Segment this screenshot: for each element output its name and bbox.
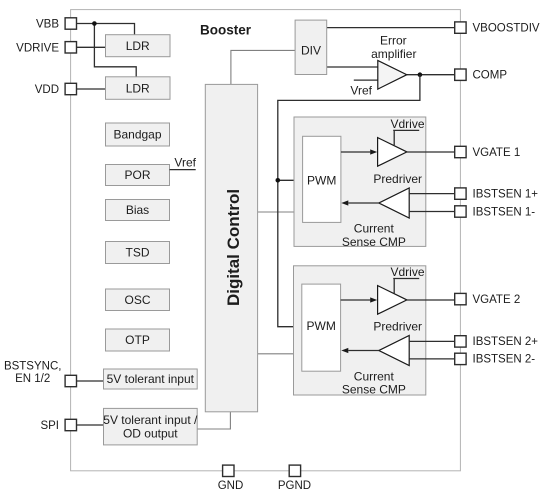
wire predriver1 to VGATE 1 bbox=[407, 151, 455, 153]
op-amp error amplifier bbox=[371, 33, 416, 89]
comparator current sense CMP 2 bbox=[379, 336, 409, 366]
svg-text:Error: Error bbox=[380, 33, 407, 47]
svg-text:BSTSYNC,: BSTSYNC, bbox=[4, 360, 62, 372]
svg-text:Vref: Vref bbox=[350, 83, 372, 97]
svg-text:COMP: COMP bbox=[473, 70, 508, 82]
wire IBSTSEN 1+ to comparator1 bbox=[409, 193, 455, 195]
block POR bbox=[106, 165, 170, 186]
amplifier predriver2 bbox=[373, 286, 422, 334]
svg-text:Bias: Bias bbox=[126, 203, 149, 217]
svg-text:GND: GND bbox=[218, 480, 244, 492]
svg-text:POR: POR bbox=[124, 168, 150, 182]
svg-text:OTP: OTP bbox=[125, 333, 150, 347]
node COMP junction bbox=[418, 72, 423, 77]
block LDR1 bbox=[106, 35, 171, 57]
svg-text:VGATE 1: VGATE 1 bbox=[473, 147, 521, 159]
svg-text:Sense CMP: Sense CMP bbox=[342, 382, 406, 396]
pin SPI bbox=[40, 419, 76, 432]
wire VDRIVE to LDR1 bbox=[77, 46, 106, 48]
pin VDRIVE bbox=[16, 42, 76, 55]
net Vref into error amplifier bbox=[354, 79, 378, 81]
svg-text:VGATE 2: VGATE 2 bbox=[473, 294, 521, 306]
pin VDD bbox=[35, 83, 77, 96]
pin VGATE 2 bbox=[455, 293, 521, 306]
pin BSTSYNC EN 1/2 bbox=[4, 360, 77, 386]
block DIV bbox=[295, 20, 327, 74]
wire DIV to error amplifier bbox=[327, 66, 378, 68]
block PWM2 bbox=[302, 284, 341, 371]
wire PWM1 to predriver1 bbox=[341, 151, 370, 153]
block TSD bbox=[106, 242, 170, 264]
svg-text:LDR: LDR bbox=[126, 39, 150, 53]
wire IBSTSEN 1- to comparator1 bbox=[409, 211, 455, 213]
wire BSTSYNC to 5V tolerant input bbox=[77, 380, 104, 382]
comparator current sense CMP 1 bbox=[379, 188, 409, 218]
svg-text:Sense CMP: Sense CMP bbox=[342, 235, 406, 249]
wire IBSTSEN 2+ to comparator2 bbox=[409, 340, 455, 342]
wire error amplifier to COMP bbox=[407, 74, 455, 76]
block OSC bbox=[106, 289, 170, 311]
svg-text:PGND: PGND bbox=[278, 480, 311, 492]
group box Current Sense CMP 1 bbox=[294, 117, 426, 249]
block OTP bbox=[106, 329, 170, 351]
svg-text:VBB: VBB bbox=[36, 19, 59, 31]
block Bias bbox=[106, 200, 170, 221]
svg-text:IBSTSEN 1-: IBSTSEN 1- bbox=[473, 206, 536, 218]
net Vdrive 2 bbox=[390, 265, 424, 293]
wire Digital Control to PWM2 bbox=[258, 353, 302, 355]
block 5V tolerant input / OD output bbox=[103, 408, 198, 445]
svg-text:Predriver: Predriver bbox=[373, 172, 422, 186]
wire Digital Control to PWM1 bbox=[258, 211, 303, 213]
wire Digital Control to OD block bbox=[197, 412, 230, 429]
wire VBB to LDR1 bbox=[77, 24, 135, 35]
node feedback junction bbox=[276, 178, 281, 183]
svg-text:IBSTSEN 1+: IBSTSEN 1+ bbox=[473, 188, 539, 200]
svg-text:5V tolerant input: 5V tolerant input bbox=[107, 372, 195, 386]
svg-text:PWM: PWM bbox=[307, 319, 336, 333]
pin PGND bbox=[278, 465, 311, 492]
node VBB junction bbox=[92, 21, 97, 26]
block Digital Control bbox=[205, 84, 257, 411]
wire predriver2 to VGATE 2 bbox=[407, 299, 455, 301]
svg-text:VDD: VDD bbox=[35, 84, 59, 96]
svg-text:VDRIVE: VDRIVE bbox=[16, 42, 59, 54]
svg-text:OSC: OSC bbox=[124, 293, 150, 307]
wire comparator2 output to PWM2 bbox=[348, 350, 379, 352]
chip boundary bbox=[71, 10, 461, 471]
svg-text:VBOOSTDIV: VBOOSTDIV bbox=[473, 22, 540, 34]
svg-text:5V tolerant input /: 5V tolerant input / bbox=[103, 413, 198, 427]
pin IBSTSEN 1+ bbox=[455, 188, 539, 201]
wire VBB branch to LDR2 bbox=[94, 24, 136, 77]
svg-text:OD output: OD output bbox=[123, 427, 178, 441]
svg-text:Predriver: Predriver bbox=[373, 319, 422, 333]
block PWM1 bbox=[303, 136, 341, 222]
pin IBSTSEN 2- bbox=[455, 353, 536, 366]
pin VBOOSTDIV bbox=[455, 22, 540, 35]
svg-text:IBSTSEN 2+: IBSTSEN 2+ bbox=[473, 336, 539, 348]
pin VBB bbox=[36, 18, 77, 31]
wire comparator1 output to PWM1 bbox=[348, 202, 379, 204]
svg-text:PWM: PWM bbox=[307, 173, 336, 187]
block 5V tolerant input bbox=[104, 369, 198, 389]
svg-text:Vdrive: Vdrive bbox=[390, 117, 424, 131]
svg-text:LDR: LDR bbox=[126, 81, 150, 95]
svg-text:Current: Current bbox=[354, 222, 395, 236]
pin IBSTSEN 1- bbox=[455, 206, 536, 219]
pin IBSTSEN 2+ bbox=[455, 336, 539, 349]
svg-text:Digital Control: Digital Control bbox=[224, 189, 243, 306]
svg-text:SPI: SPI bbox=[40, 420, 59, 432]
pin GND bbox=[218, 465, 244, 492]
wire feedback branch to PWM1 bbox=[278, 179, 303, 181]
amplifier predriver1 bbox=[373, 138, 422, 186]
wire VDD to LDR2 bbox=[77, 88, 106, 90]
wire IBSTSEN 2- to comparator2 bbox=[409, 358, 455, 360]
wire DIV to Digital Control bbox=[231, 50, 295, 84]
svg-text:Bandgap: Bandgap bbox=[113, 128, 161, 142]
net Vdrive 1 bbox=[390, 117, 424, 145]
svg-text:Vdrive: Vdrive bbox=[390, 265, 424, 279]
block Bandgap bbox=[106, 123, 170, 146]
group box Current Sense CMP 2 bbox=[294, 266, 426, 397]
svg-text:Current: Current bbox=[354, 369, 395, 383]
pin VGATE 1 bbox=[455, 146, 521, 159]
net Vref from POR bbox=[170, 156, 197, 170]
svg-text:Vref: Vref bbox=[174, 156, 196, 170]
svg-text:IBSTSEN 2-: IBSTSEN 2- bbox=[473, 354, 536, 366]
wire PWM2 to predriver2 bbox=[341, 299, 371, 301]
wire DIV to VBOOSTDIV bbox=[327, 27, 455, 29]
pin COMP bbox=[455, 69, 508, 82]
block LDR2 bbox=[106, 77, 171, 100]
svg-text:TSD: TSD bbox=[126, 246, 150, 260]
wire SPI to OD block bbox=[77, 424, 104, 426]
svg-text:EN 1/2: EN 1/2 bbox=[15, 373, 50, 385]
svg-text:amplifier: amplifier bbox=[371, 47, 416, 61]
svg-text:DIV: DIV bbox=[301, 44, 321, 58]
wire COMP feedback to PWM2 bbox=[278, 75, 420, 327]
svg-text:Booster: Booster bbox=[200, 23, 252, 38]
